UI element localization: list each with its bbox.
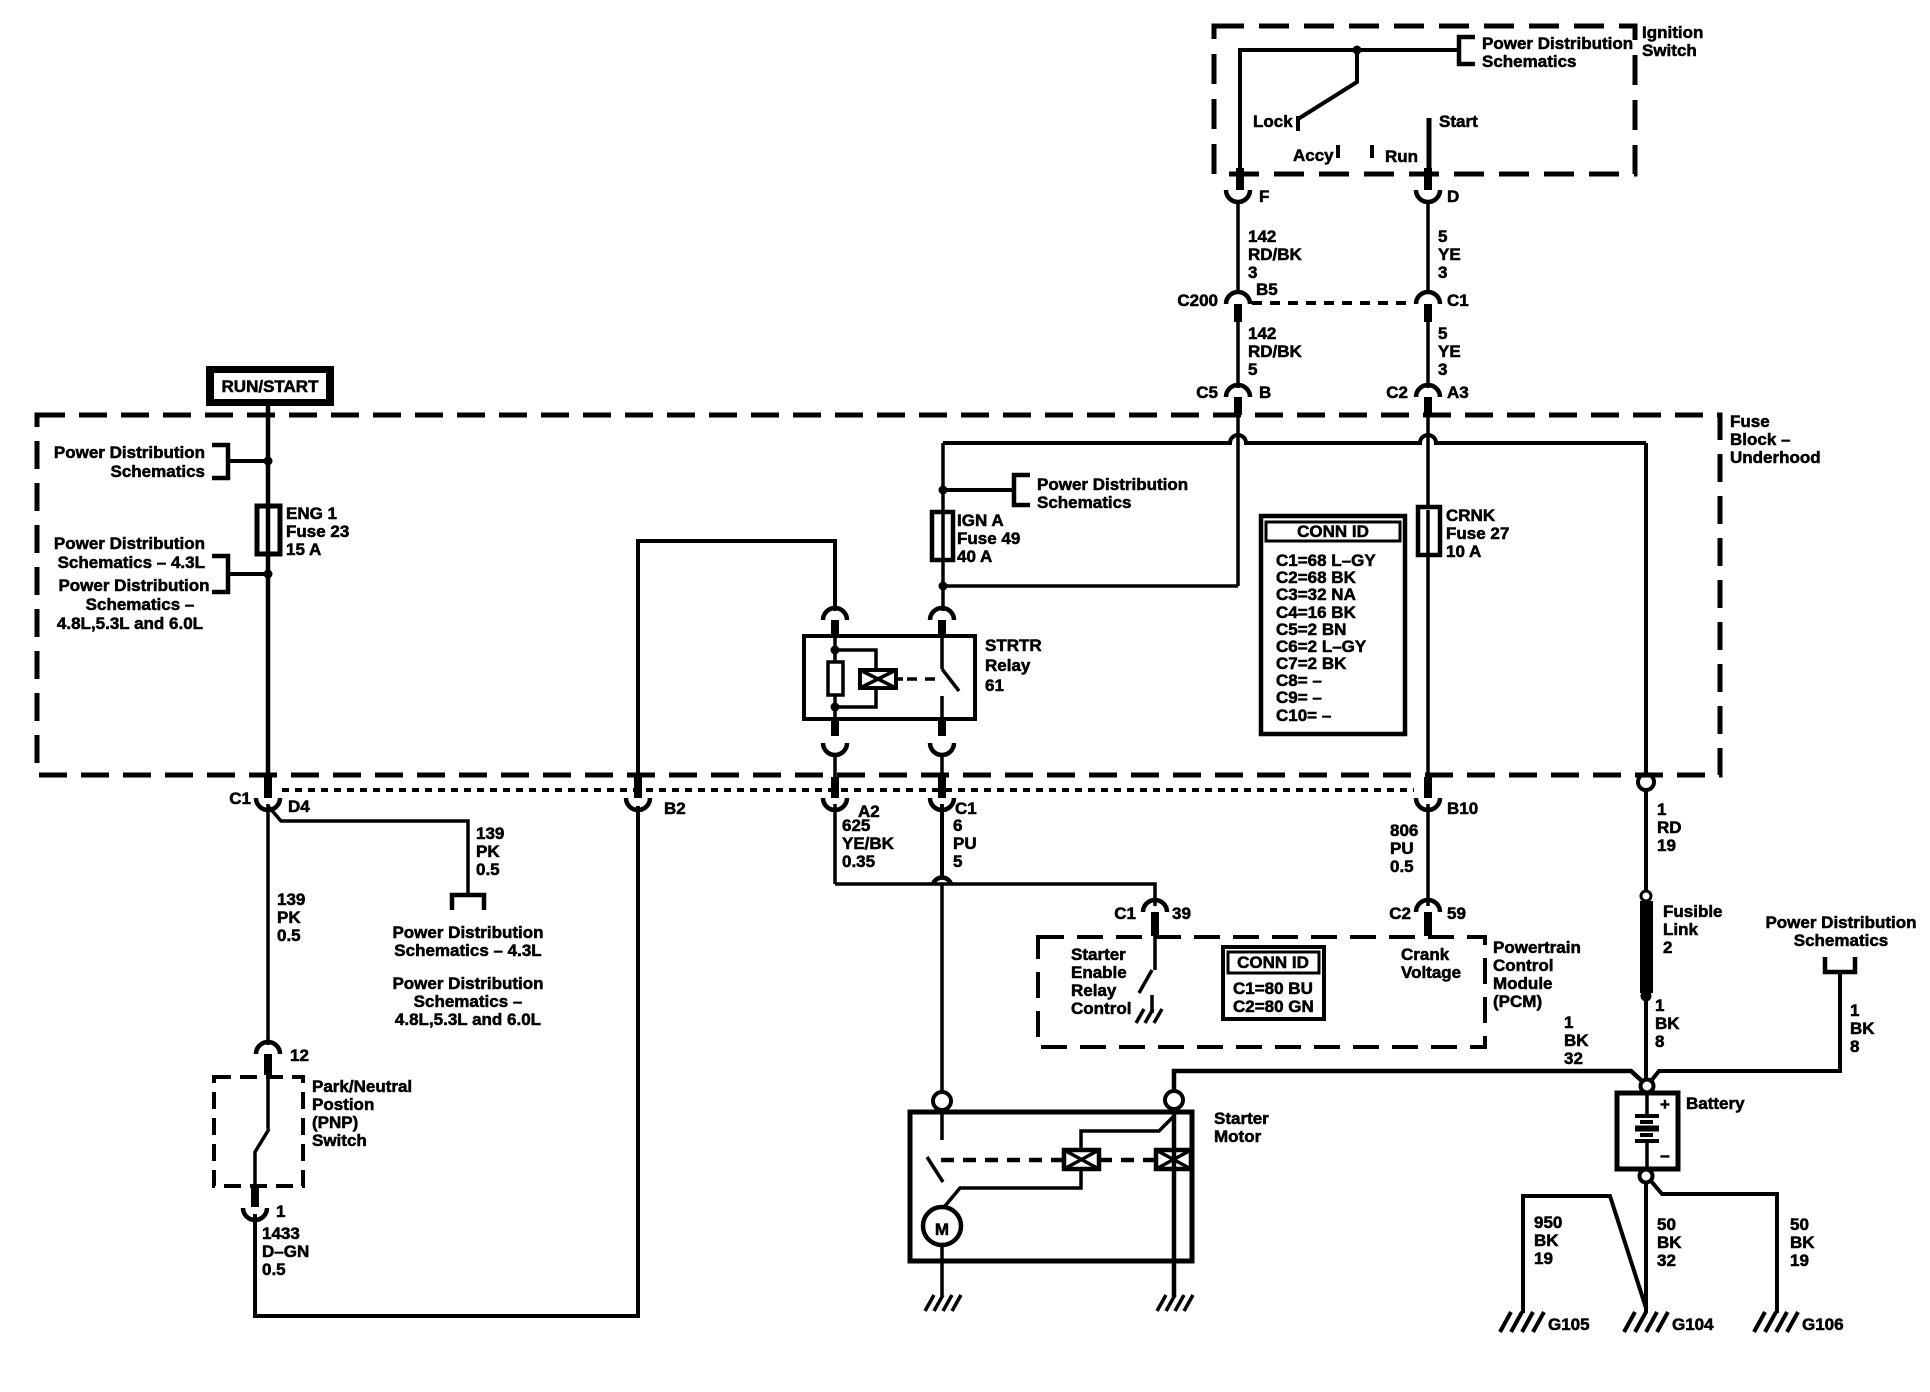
svg-text:Start: Start <box>1439 112 1478 131</box>
node relay coil top junction <box>831 646 840 655</box>
svg-text:4.8L,5.3L and 6.0L: 4.8L,5.3L and 6.0L <box>57 614 203 633</box>
svg-text:RD: RD <box>1657 818 1682 837</box>
svg-text:Link: Link <box>1663 920 1698 939</box>
terminal battery negative <box>1640 1170 1653 1183</box>
switch ignition rotor to Lock <box>1253 50 1357 131</box>
svg-text:IGN A: IGN A <box>957 511 1004 530</box>
svg-text:50: 50 <box>1790 1215 1809 1234</box>
switch relay contacts <box>942 637 959 719</box>
wire 1 BK 8 (fusible link to battery) <box>1646 996 1680 1078</box>
svg-text:Fusible: Fusible <box>1663 902 1723 921</box>
svg-text:Schematics: Schematics <box>1794 931 1889 950</box>
svg-text:Power Distribution: Power Distribution <box>1482 34 1633 53</box>
wire right bus vertical <box>1644 443 1648 774</box>
svg-text:625: 625 <box>842 816 870 835</box>
connector C200 terminal B5 <box>1177 280 1277 322</box>
svg-text:BK: BK <box>1564 1031 1589 1050</box>
wire 625 YE/BK 0.35 <box>835 804 895 884</box>
svg-text:39: 39 <box>1172 904 1191 923</box>
park/neutral position switch box <box>214 1077 412 1186</box>
switch starter solenoid contact <box>927 1110 943 1182</box>
connector fuse block terminal C1 D4 <box>229 777 310 816</box>
node bracket junction 1 <box>264 457 273 466</box>
svg-text:Underhood: Underhood <box>1730 448 1821 467</box>
ground starter solenoid <box>1157 1295 1193 1311</box>
svg-text:B: B <box>1259 383 1271 402</box>
resistor relay coil shunt <box>828 637 843 719</box>
svg-text:YE: YE <box>1438 342 1461 361</box>
wire ignition feed <box>1240 48 1459 172</box>
svg-text:C1: C1 <box>229 789 251 808</box>
svg-text:142: 142 <box>1248 227 1276 246</box>
connector fuse block terminal B10 <box>1416 777 1478 818</box>
ground G105 <box>1500 1312 1590 1334</box>
node IGN A bracket junction <box>939 486 948 495</box>
svg-text:Fuse 49: Fuse 49 <box>957 529 1020 548</box>
svg-text:8: 8 <box>1850 1037 1859 1056</box>
motor M starter <box>923 1207 961 1245</box>
svg-text:C2: C2 <box>1386 383 1408 402</box>
wire IGN A output to relay <box>941 586 945 611</box>
fusible link 2 <box>1640 891 1723 1002</box>
svg-text:Control: Control <box>1493 956 1553 975</box>
svg-text:PU: PU <box>953 834 977 853</box>
svg-text:PU: PU <box>1390 839 1414 858</box>
svg-text:Schematics: Schematics <box>111 462 206 481</box>
svg-text:12: 12 <box>290 1046 309 1065</box>
svg-text:B5: B5 <box>1256 280 1278 299</box>
svg-text:Motor: Motor <box>1214 1127 1262 1146</box>
wire fuse block connector face (dotted) <box>282 788 1414 792</box>
svg-text:RD/BK: RD/BK <box>1248 342 1303 361</box>
wire 50 BK 19 (battery to G106) <box>1651 1181 1815 1313</box>
wire 950 BK 19 (G105 to G104) <box>1523 1196 1646 1313</box>
connector PCM terminal C2 59 <box>1389 900 1466 936</box>
svg-text:PK: PK <box>277 908 301 927</box>
svg-text:59: 59 <box>1447 904 1466 923</box>
svg-text:32: 32 <box>1564 1049 1583 1068</box>
switch PNP contacts <box>255 1077 269 1186</box>
wire battery bus with hops <box>943 435 1646 443</box>
label RUN/START <box>206 366 334 406</box>
svg-text:Schematics: Schematics <box>1482 52 1577 71</box>
fuse IGN A Fuse 49 40 A <box>932 511 1020 586</box>
wire 5 YE 3 (lower) <box>1428 322 1461 388</box>
svg-text:D: D <box>1447 187 1459 206</box>
svg-text:CRNK: CRNK <box>1446 506 1496 525</box>
connector PNP terminal 1 <box>243 1186 285 1221</box>
svg-text:C2: C2 <box>1389 904 1411 923</box>
svg-text:5: 5 <box>1438 324 1447 343</box>
svg-text:Switch: Switch <box>1642 41 1697 60</box>
node ignition feed junction <box>1353 46 1362 55</box>
svg-text:B10: B10 <box>1447 799 1478 818</box>
ground G104 <box>1624 1312 1714 1334</box>
svg-text:(PNP): (PNP) <box>312 1113 358 1132</box>
fuse block underhood box <box>37 412 1821 775</box>
battery <box>1617 1093 1745 1169</box>
connector fuse block terminal C5 B <box>1196 383 1271 415</box>
svg-text:BK: BK <box>1657 1233 1682 1252</box>
wire 1 BK 32 battery cable <box>1174 1013 1642 1091</box>
svg-text:C1: C1 <box>1447 291 1469 310</box>
wire IGN A feed <box>941 443 945 512</box>
svg-text:Accy: Accy <box>1293 146 1334 165</box>
svg-text:C200: C200 <box>1177 291 1218 310</box>
svg-text:C5: C5 <box>1196 383 1218 402</box>
svg-text:C2=80 GN: C2=80 GN <box>1233 997 1314 1016</box>
svg-text:C1=80 BU: C1=80 BU <box>1233 979 1313 998</box>
svg-text:142: 142 <box>1248 324 1276 343</box>
coil starter pull-in winding <box>1064 1150 1099 1169</box>
svg-text:1: 1 <box>1655 996 1664 1015</box>
svg-text:−: − <box>1660 1147 1670 1166</box>
powertrain control module box <box>1038 937 1581 1047</box>
connector relay switch top <box>930 608 954 637</box>
svg-text:6: 6 <box>953 816 962 835</box>
terminal starter B+ <box>1165 1091 1183 1109</box>
connector relay switch bottom <box>930 719 954 779</box>
wire 139 PK 0.5 (to PNP) <box>268 804 305 1045</box>
connector PCM terminal C1 39 <box>1114 900 1191 936</box>
label starter enable relay control <box>1071 945 1131 1018</box>
svg-text:19: 19 <box>1657 836 1676 855</box>
svg-text:Fuse 27: Fuse 27 <box>1446 524 1509 543</box>
svg-text:Relay: Relay <box>1071 981 1117 1000</box>
svg-text:40 A: 40 A <box>957 547 992 566</box>
svg-text:50: 50 <box>1657 1215 1676 1234</box>
svg-text:1: 1 <box>1564 1013 1573 1032</box>
svg-text:Module: Module <box>1493 974 1553 993</box>
svg-text:BK: BK <box>1534 1231 1559 1250</box>
wire RUN/START feed <box>266 404 271 779</box>
wire 1 BK 8 (right) <box>1651 972 1875 1081</box>
svg-text:Lock: Lock <box>1253 112 1293 131</box>
svg-text:Power Distribution: Power Distribution <box>392 974 543 993</box>
svg-text:139: 139 <box>277 890 305 909</box>
connector relay coil top <box>823 608 847 637</box>
svg-text:Postion: Postion <box>312 1095 374 1114</box>
wire from B to IGN A output <box>943 415 1238 586</box>
svg-text:950: 950 <box>1534 1213 1562 1232</box>
svg-text:1: 1 <box>1657 800 1666 819</box>
svg-text:32: 32 <box>1657 1251 1676 1270</box>
svg-text:Switch: Switch <box>312 1131 367 1150</box>
svg-text:Control: Control <box>1071 999 1131 1018</box>
ignition switch box <box>1214 23 1703 174</box>
svg-text:Schematics –: Schematics – <box>86 595 195 614</box>
svg-text:Fuse 23: Fuse 23 <box>286 522 349 541</box>
wire 5 YE 3 (upper) <box>1428 200 1461 293</box>
off-page bracket power distribution 4.3L <box>392 895 543 1029</box>
svg-text:Ignition: Ignition <box>1642 23 1703 42</box>
svg-text:806: 806 <box>1390 821 1418 840</box>
svg-text:Schematics: Schematics <box>1037 493 1132 512</box>
svg-text:5: 5 <box>1438 227 1447 246</box>
svg-text:Schematics – 4.3L: Schematics – 4.3L <box>58 553 205 572</box>
svg-text:CONN ID: CONN ID <box>1237 953 1309 972</box>
svg-text:Starter: Starter <box>1214 1109 1269 1128</box>
node bracket junction 2 <box>264 570 273 579</box>
wire relay output to starter and PCM <box>835 878 1155 1093</box>
connector fuse block terminal A2 <box>823 777 880 821</box>
svg-text:19: 19 <box>1534 1249 1553 1268</box>
svg-text:3: 3 <box>1438 263 1447 282</box>
svg-text:0.5: 0.5 <box>277 926 301 945</box>
svg-text:Schematics –: Schematics – <box>414 992 523 1011</box>
terminal battery positive <box>1641 1080 1654 1093</box>
wire 139 PK 0.5 (branch to 4.3L) <box>268 806 504 893</box>
connector fuse block terminal C1 (relay switch) <box>930 777 977 818</box>
fuse CRNK Fuse 27 10 A <box>1418 506 1509 561</box>
wire pull-in winding to motor <box>945 1169 1081 1206</box>
wire from A3 to CRNK fuse <box>1426 415 1430 507</box>
node relay coil bottom junction <box>831 703 840 712</box>
coil relay winding <box>835 650 940 707</box>
svg-text:C3=32 NA: C3=32 NA <box>1276 585 1356 604</box>
svg-text:G105: G105 <box>1548 1315 1590 1334</box>
off-page bracket power distribution (ignition) <box>1459 34 1633 71</box>
svg-text:G106: G106 <box>1802 1315 1844 1334</box>
wire 142 RD/BK 3 <box>1238 200 1303 293</box>
svg-text:4.8L,5.3L and 6.0L: 4.8L,5.3L and 6.0L <box>395 1010 541 1029</box>
svg-text:0.35: 0.35 <box>842 852 875 871</box>
svg-text:2: 2 <box>1663 938 1672 957</box>
wire B2 to relay coil <box>638 541 835 779</box>
wire 1 RD 19 <box>1646 790 1682 891</box>
svg-text:STRTR: STRTR <box>985 636 1042 655</box>
switch PCM starter enable driver <box>1139 936 1155 993</box>
svg-text:Power Distribution: Power Distribution <box>1037 475 1188 494</box>
svg-text:B2: B2 <box>664 799 686 818</box>
node IGN A output junction <box>939 582 948 591</box>
svg-text:Power Distribution: Power Distribution <box>54 534 205 553</box>
svg-text:1: 1 <box>276 1202 285 1221</box>
svg-text:RUN/START: RUN/START <box>222 377 320 396</box>
svg-text:Run: Run <box>1385 147 1418 166</box>
coil starter hold-in winding <box>1156 1150 1191 1169</box>
svg-text:1: 1 <box>1850 1001 1859 1020</box>
svg-text:D4: D4 <box>288 797 310 816</box>
svg-text:(PCM): (PCM) <box>1493 992 1542 1011</box>
svg-text:PK: PK <box>476 842 500 861</box>
svg-text:Crank: Crank <box>1401 945 1450 964</box>
svg-text:0.5: 0.5 <box>1390 857 1414 876</box>
wire CRNK fuse to B10 <box>1426 555 1430 779</box>
connector fuse block terminal C2 A3 <box>1386 383 1468 415</box>
svg-text:139: 139 <box>476 824 504 843</box>
svg-text:Power Distribution: Power Distribution <box>54 443 205 462</box>
ground starter motor case <box>925 1295 961 1311</box>
connector pin D <box>1416 168 1459 206</box>
svg-text:0.5: 0.5 <box>262 1260 286 1279</box>
relay STRTR Relay 61 box <box>804 636 1042 719</box>
svg-text:Fuse: Fuse <box>1730 412 1770 431</box>
terminal starter S <box>933 1092 951 1110</box>
svg-text:3: 3 <box>1438 360 1447 379</box>
svg-text:YE: YE <box>1438 245 1461 264</box>
wire 806 PU 0.5 <box>1390 804 1428 906</box>
svg-text:+: + <box>1660 1095 1670 1114</box>
wire 6 PU 5 <box>942 804 977 877</box>
svg-text:8: 8 <box>1655 1032 1664 1051</box>
svg-text:C1: C1 <box>1114 904 1136 923</box>
svg-text:Power Distribution: Power Distribution <box>58 576 209 595</box>
connector PNP terminal 12 <box>256 1042 309 1075</box>
svg-text:1433: 1433 <box>262 1224 300 1243</box>
svg-text:YE/BK: YE/BK <box>842 834 895 853</box>
svg-text:15 A: 15 A <box>286 540 321 559</box>
svg-text:10 A: 10 A <box>1446 542 1481 561</box>
svg-text:Starter: Starter <box>1071 945 1126 964</box>
svg-text:0.5: 0.5 <box>476 860 500 879</box>
wire 50 BK 32 (battery to G104) <box>1646 1182 1682 1313</box>
connector pin F <box>1226 168 1269 206</box>
svg-text:A3: A3 <box>1447 383 1469 402</box>
off-page bracket power distribution schematics (left 2) <box>54 534 268 633</box>
fuse ENG 1 Fuse 23 15 A <box>257 504 349 559</box>
svg-text:G104: G104 <box>1672 1315 1714 1334</box>
svg-text:BK: BK <box>1850 1019 1875 1038</box>
svg-text:5: 5 <box>1248 360 1257 379</box>
svg-text:F: F <box>1259 187 1269 206</box>
starter motor box <box>910 1109 1269 1261</box>
svg-text:61: 61 <box>985 676 1004 695</box>
connector ring fuse block output <box>1638 774 1654 790</box>
contact Start <box>1429 112 1478 172</box>
contact Accy <box>1293 145 1338 165</box>
svg-text:Schematics – 4.3L: Schematics – 4.3L <box>394 941 541 960</box>
svg-text:BK: BK <box>1655 1014 1680 1033</box>
off-page bracket power distribution (battery) <box>1765 913 1916 972</box>
off-page bracket power distribution schematics (left 1) <box>54 443 268 481</box>
svg-text:Power Distribution: Power Distribution <box>392 923 543 942</box>
connector fuse block terminal B2 <box>626 777 686 818</box>
connector relay coil bottom <box>823 719 847 779</box>
svg-text:Power Distribution: Power Distribution <box>1765 913 1916 932</box>
svg-text:Relay: Relay <box>985 656 1031 675</box>
svg-text:Powertrain: Powertrain <box>1493 938 1581 957</box>
wire 142 RD/BK 5 <box>1238 322 1303 388</box>
svg-text:RD/BK: RD/BK <box>1248 245 1303 264</box>
wire solenoid actuator (dashed) <box>941 1158 1156 1163</box>
ground G106 <box>1754 1312 1844 1334</box>
label crank voltage <box>1401 945 1461 982</box>
svg-text:5: 5 <box>953 852 962 871</box>
svg-text:Battery: Battery <box>1686 1094 1745 1113</box>
svg-text:C10= –: C10= – <box>1276 706 1331 725</box>
wire motor to ground <box>940 1245 944 1297</box>
wire 1433 D-GN 0.5 <box>255 806 638 1316</box>
svg-text:Block –: Block – <box>1730 430 1790 449</box>
table CONN ID (PCM) <box>1223 947 1324 1019</box>
wire pull-in winding to B+ <box>1081 1116 1174 1150</box>
svg-text:Voltage: Voltage <box>1401 963 1461 982</box>
svg-text:CONN ID: CONN ID <box>1297 522 1369 541</box>
svg-text:M: M <box>935 1220 949 1239</box>
svg-text:19: 19 <box>1790 1251 1809 1270</box>
svg-text:C9= –: C9= – <box>1276 688 1322 707</box>
wire C200 connector face (dashed) <box>1252 301 1414 305</box>
svg-text:Park/Neutral: Park/Neutral <box>312 1077 412 1096</box>
svg-text:ENG 1: ENG 1 <box>286 504 337 523</box>
svg-text:D–GN: D–GN <box>262 1242 309 1261</box>
svg-text:Enable: Enable <box>1071 963 1127 982</box>
wire B+ through hold-in winding to ground <box>1172 1109 1177 1297</box>
contact Run <box>1372 145 1418 166</box>
svg-text:BK: BK <box>1790 1233 1815 1252</box>
table CONN ID (fuse block) <box>1261 516 1405 734</box>
connector C200 terminal C1 <box>1416 291 1469 322</box>
off-page bracket power distribution (IGN A) <box>943 475 1188 512</box>
ground PCM internal <box>1136 995 1162 1023</box>
